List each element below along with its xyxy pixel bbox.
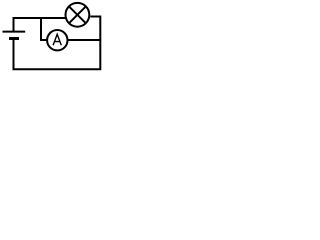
ammeter A1 letter label xyxy=(53,34,61,45)
lamp L1 circle xyxy=(66,3,90,27)
battery B1 short plate (-) xyxy=(9,37,19,40)
ammeter A1 circle xyxy=(47,30,67,50)
wire: battery negative lead down, bottom wire, right vertical up to lamp right lead xyxy=(14,17,101,70)
wire: battery positive lead up and top wire to lamp xyxy=(14,18,66,32)
lamp L1 cross X xyxy=(69,6,86,23)
node T-junction and wire: drop from top wire down to ammeter level xyxy=(41,18,48,41)
wire: ammeter to right vertical xyxy=(68,39,101,41)
battery B1 long plate (+) xyxy=(3,31,26,33)
